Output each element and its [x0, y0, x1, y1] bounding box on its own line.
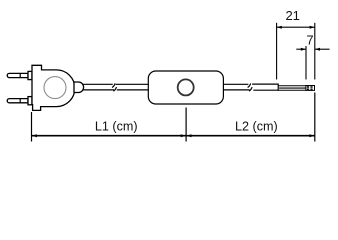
svg-text:7: 7	[306, 33, 313, 48]
svg-text:L2 (cm): L2 (cm)	[235, 120, 278, 134]
svg-text:L1 (cm): L1 (cm)	[95, 120, 138, 134]
svg-text:21: 21	[285, 8, 299, 23]
